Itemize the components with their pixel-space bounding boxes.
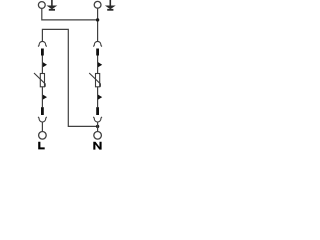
wire: top-left terminal down, across to right branch: [42, 8, 98, 20]
terminal circle bottom-right (N): [94, 132, 102, 140]
terminal circle bottom-left (L): [39, 132, 47, 140]
terminal circle top-left (PE): [38, 2, 45, 9]
right arrester: body line upper: [97, 56, 99, 74]
left arrester: body line lower: [41, 87, 43, 108]
right varistor box: [96, 74, 100, 87]
wire: top-right terminal down to right arrester: [97, 8, 99, 41]
junction dot bottom (N node): [96, 125, 99, 128]
left varistor diagonal with tail: [34, 73, 45, 87]
junction dot top (PE node): [96, 18, 99, 21]
left arrester: body line upper: [41, 56, 43, 74]
left arrester: disconnect flag upper: [43, 62, 47, 67]
right arrester: lower electrode bar: [96, 107, 99, 115]
right arrester: disconnect flag upper: [98, 62, 102, 67]
label N: [93, 142, 101, 150]
right arrester: upper socket contact (arc): [93, 41, 102, 46]
wire: right arc through N node to N terminal: [97, 122, 99, 132]
left varistor box: [40, 74, 44, 87]
right arrester: upper electrode bar: [96, 49, 99, 56]
wire: left arc to L terminal: [41, 122, 43, 132]
arrow symbol top-left (down arrow onto bar): [47, 0, 58, 11]
terminal circle top-right (PE): [94, 1, 101, 8]
left arrester: lower socket contact (arc): [38, 117, 47, 122]
left arrester: upper electrode bar: [41, 49, 44, 56]
left arrester: disconnect flag lower: [43, 95, 47, 100]
arrow symbol top-right (down arrow onto bar): [105, 0, 116, 11]
right arrester: lower socket contact (arc): [93, 117, 102, 122]
left arrester: upper socket contact (arc): [38, 41, 47, 46]
wire: left arrester top to N node (L-N link): [42, 29, 97, 126]
left arrester: lower electrode bar: [41, 107, 44, 115]
right varistor diagonal with tail: [89, 73, 100, 87]
right arrester: disconnect flag lower: [98, 95, 102, 100]
label L: [38, 142, 45, 150]
right arrester: body line lower: [97, 87, 99, 108]
